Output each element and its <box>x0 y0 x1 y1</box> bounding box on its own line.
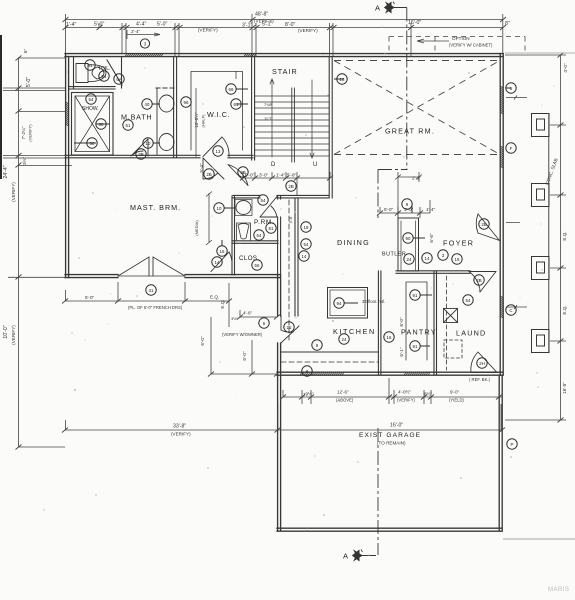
keynote 58 shower2 <box>87 138 97 148</box>
keynote 90 butler <box>403 233 413 243</box>
svg-text:40: 40 <box>145 102 150 107</box>
keynote 6 patio <box>259 318 269 328</box>
svg-text:(TO REMAIN): (TO REMAIN) <box>377 441 406 446</box>
stair east wall <box>328 57 330 198</box>
great rm option dashed box <box>389 37 525 55</box>
svg-text:(HALF): (HALF) <box>201 114 206 128</box>
keynote 41 french drs <box>146 285 156 295</box>
svg-text:16'-8": 16'-8" <box>562 382 567 394</box>
svg-text:8: 8 <box>306 369 309 374</box>
svg-text:6'-8": 6'-8" <box>429 233 434 243</box>
keynote 64 prm <box>254 230 264 240</box>
svg-text:3½": 3½" <box>21 157 27 165</box>
pantry shelves <box>406 282 427 360</box>
svg-text:BUTLER: BUTLER <box>382 252 406 258</box>
keynote 58 shower <box>96 119 106 129</box>
keynote C right wall <box>506 305 516 315</box>
garage bottom wall <box>277 527 502 529</box>
svg-text:(VERIFY): (VERIFY) <box>298 28 318 33</box>
keynote 13 wic door <box>213 146 223 156</box>
svg-text:24'-4": 24'-4" <box>3 165 9 178</box>
svg-text:MAST. BRM.: MAST. BRM. <box>130 203 181 212</box>
hall door to stair area <box>228 165 248 186</box>
svg-text:51: 51 <box>88 63 93 68</box>
patio dim row 2 <box>240 316 277 318</box>
svg-text:U: U <box>313 162 317 168</box>
vanity sink 1 <box>159 95 174 112</box>
keynote 16 pantry door <box>384 332 394 342</box>
patio dim row: french doors <box>65 300 229 302</box>
svg-text:(VERIFY W/ CABINET): (VERIFY W/ CABINET) <box>449 43 493 48</box>
keynote 3 top dim <box>140 39 149 48</box>
window top wall left <box>125 54 163 57</box>
svg-text:SHOW.: SHOW. <box>82 106 99 112</box>
svg-text:(YIELD): (YIELD) <box>449 398 464 403</box>
svg-text:48'-8": 48'-8" <box>255 12 268 18</box>
svg-text:66: 66 <box>229 87 234 92</box>
svg-text:6: 6 <box>510 86 513 91</box>
svg-text:5'-0": 5'-0" <box>157 22 167 28</box>
svg-text:5'-8": 5'-8" <box>287 173 297 178</box>
porch post 4 <box>532 330 550 353</box>
keynote 18 great rm <box>337 74 347 84</box>
svg-text:1'-4": 1'-4" <box>66 22 76 28</box>
svg-text:CONC. SLAB: CONC. SLAB <box>544 158 558 186</box>
hall / kitchen west wall <box>277 275 279 316</box>
window top wall 2 <box>244 54 256 57</box>
stair west wall <box>251 57 253 160</box>
keynote 81 prm <box>266 223 276 233</box>
svg-text:12'-6": 12'-6" <box>337 390 349 395</box>
porch post 3 <box>532 257 550 280</box>
keynote 54 laund <box>463 295 473 305</box>
svg-text:(VERIFY): (VERIFY) <box>198 28 218 33</box>
dining west wall pair <box>294 198 296 316</box>
closet door from master <box>211 252 232 272</box>
svg-text:4'-6": 4'-6" <box>243 311 253 316</box>
svg-text:PANTRY: PANTRY <box>401 328 437 337</box>
keynote 54 toilet rm <box>99 71 109 81</box>
laundry door to garage <box>471 352 497 373</box>
vanity counter edge <box>156 89 158 155</box>
window left wall master <box>66 102 69 126</box>
svg-text:90: 90 <box>406 236 411 241</box>
svg-text:6'-1": 6'-1" <box>399 347 404 357</box>
powder room south wall <box>232 240 278 242</box>
svg-text:(VERIFY): (VERIFY) <box>11 325 16 345</box>
svg-text:4'-0": 4'-0" <box>563 63 568 73</box>
svg-text:F: F <box>510 146 513 151</box>
svg-text:13: 13 <box>216 149 221 154</box>
keynote 51 toilet rm <box>85 60 95 70</box>
laundry dashed appliance <box>444 340 462 358</box>
master bedroom bottom wall <box>65 274 118 276</box>
svg-text:4'-0½": 4'-0½" <box>398 389 411 395</box>
svg-text:61: 61 <box>234 102 239 107</box>
keynote 2B hall door <box>204 169 214 179</box>
svg-text:6: 6 <box>263 321 266 326</box>
butler cabinet <box>398 218 419 271</box>
svg-text:58: 58 <box>99 122 104 127</box>
svg-text:10: 10 <box>217 206 222 211</box>
keynote 51 mbath <box>123 120 133 130</box>
shower X diagonal 1 <box>75 96 110 152</box>
left exterior wall <box>65 54 67 278</box>
svg-text:3'-1": 3'-1" <box>242 23 252 29</box>
window bottom kitchen <box>300 372 344 375</box>
svg-text:(ABOVE): (ABOVE) <box>336 398 354 403</box>
svg-text:2'-4": 2'-4" <box>131 29 141 34</box>
svg-text:4'-4": 4'-4" <box>136 22 146 28</box>
svg-text:5'-0": 5'-0" <box>26 77 32 87</box>
svg-text:16'-0": 16'-0" <box>390 423 403 429</box>
svg-text:5'-0": 5'-0" <box>94 22 104 28</box>
svg-text:24: 24 <box>407 257 412 262</box>
WIC shelf outline <box>191 72 243 151</box>
section line A-A <box>353 2 408 562</box>
powder room west wall <box>231 196 233 275</box>
svg-text:6'-0": 6'-0" <box>200 336 205 346</box>
keynote 24 kitchen <box>339 334 349 344</box>
svg-text:54: 54 <box>89 97 94 102</box>
svg-text:3'-0": 3'-0" <box>259 173 269 178</box>
svg-text:5'-0": 5'-0" <box>384 207 394 212</box>
svg-text:51: 51 <box>126 123 131 128</box>
option note arrow <box>417 39 449 43</box>
left dim ticks <box>16 56 22 450</box>
svg-text:16: 16 <box>387 335 392 340</box>
keynote 10 mbath <box>143 138 153 148</box>
master bath south wall <box>65 154 200 156</box>
keynote 2B stair door <box>238 167 248 177</box>
top segment dim line <box>65 27 503 29</box>
svg-text:56: 56 <box>255 263 260 268</box>
svg-text:2B: 2B <box>138 152 143 157</box>
svg-text:64: 64 <box>257 233 262 238</box>
window center tick marks right wall <box>506 96 527 310</box>
window right wall great rm <box>500 86 503 114</box>
master bath door leaf lower right <box>131 139 148 156</box>
svg-text:91: 91 <box>413 293 418 298</box>
svg-text:6": 6" <box>23 49 28 54</box>
section arrow bottom <box>353 550 363 562</box>
svg-text:E.Q.: E.Q. <box>210 295 219 300</box>
left horizontal extension lines <box>3 58 72 447</box>
house bottom wall <box>277 371 503 373</box>
sub dim line with arrow <box>127 30 160 39</box>
garage left wall <box>277 375 279 531</box>
hall door to kitchen <box>281 316 299 343</box>
svg-text:18: 18 <box>340 77 345 82</box>
svg-text:±9½": ±9½" <box>303 391 314 397</box>
svg-text:2B: 2B <box>481 222 486 227</box>
svg-text:9: 9 <box>316 343 319 348</box>
shower inner box <box>75 96 110 152</box>
shower outer box <box>72 93 114 156</box>
svg-text:5'-0": 5'-0" <box>85 295 95 300</box>
keynote 19 foyer <box>452 254 462 264</box>
svg-text:2'-1": 2'-1" <box>412 176 422 181</box>
dim row above hall (y178) <box>243 177 330 179</box>
svg-text:(VERIFY): (VERIFY) <box>11 182 16 202</box>
svg-text:19: 19 <box>304 225 309 230</box>
keynote 14 dining2 <box>299 251 309 261</box>
scan edge artifact left <box>0 36 2 178</box>
svg-text:DINING: DINING <box>337 238 370 247</box>
svg-text:5'-4": 5'-4" <box>199 163 204 173</box>
WIC door leaf + arc <box>203 137 229 157</box>
keynote F right wall <box>506 143 516 153</box>
svg-text:54: 54 <box>102 74 107 79</box>
powder room toilet <box>237 223 251 240</box>
long bottom dim line 33'-8 <box>65 429 502 431</box>
svg-text:(VERIFY): (VERIFY) <box>28 124 33 142</box>
porch post 2 <box>532 184 550 207</box>
bath/WIC divider wall <box>173 57 175 157</box>
svg-text:5'-1": 5'-1" <box>262 22 272 28</box>
svg-text:FOYER: FOYER <box>443 239 474 248</box>
kitchen island <box>328 288 368 319</box>
svg-text:(VERIFY): (VERIFY) <box>397 398 416 403</box>
keynote 54 prm door <box>258 195 268 205</box>
keynote 40 mbath <box>142 99 152 109</box>
svg-text:16'-0": 16'-0" <box>408 20 421 26</box>
garage dim row under house <box>283 396 502 398</box>
svg-text:( REF. BK.): ( REF. BK.) <box>469 377 491 382</box>
svg-text:1'-4": 1'-4" <box>426 207 436 212</box>
toilet room door diagonal <box>107 60 122 85</box>
keynote 2H laund garage door <box>477 358 487 368</box>
svg-text:OPTION: OPTION <box>452 36 470 41</box>
keynote 6 right wall top <box>506 83 516 93</box>
dashed wall line right of toilet room <box>156 87 176 89</box>
svg-text:7¾R: 7¾R <box>264 102 273 107</box>
toilet fixture <box>76 64 106 83</box>
keynote 56 clos <box>252 260 262 270</box>
svg-text:8": 8" <box>505 21 510 27</box>
keynote 54 dining <box>301 239 311 249</box>
svg-text:3: 3 <box>442 253 445 258</box>
hall north wall under stair <box>233 194 260 196</box>
kitchen bottom counter <box>281 351 378 353</box>
svg-text:16: 16 <box>220 249 225 254</box>
dashed line in west hall chase <box>288 200 290 340</box>
svg-text:3½": 3½" <box>231 316 239 321</box>
svg-text:10: 10 <box>146 141 151 146</box>
svg-text:11"T: 11"T <box>264 116 273 121</box>
top dim ticks <box>63 17 507 30</box>
keynote P garage wall <box>507 439 517 449</box>
french doors master <box>118 257 185 276</box>
svg-text:KITCHEN: KITCHEN <box>333 327 376 336</box>
svg-text:10'-8½": 10'-8½" <box>193 112 199 128</box>
keynote 91 pantry2 <box>410 341 420 351</box>
svg-text:LAUND: LAUND <box>456 329 486 338</box>
keynote 24 butler <box>404 254 414 264</box>
powder room sink <box>236 201 251 215</box>
svg-text:6'-0": 6'-0" <box>242 351 247 361</box>
garage right wall <box>498 375 500 531</box>
keynote 9 kitchen <box>312 340 322 350</box>
svg-text:2H: 2H <box>479 361 485 366</box>
svg-text:81: 81 <box>269 226 274 231</box>
keynote 14 butler right <box>422 253 432 263</box>
keynote 61 wic <box>231 99 241 109</box>
prm dim row (y213) <box>380 212 420 214</box>
faint bottom-right edge line <box>503 538 575 540</box>
svg-text:58: 58 <box>90 141 95 146</box>
section arrow top <box>385 2 395 14</box>
svg-text:8'-0": 8'-0" <box>285 22 295 28</box>
svg-text:54: 54 <box>466 298 471 303</box>
svg-text:2B: 2B <box>288 184 293 189</box>
svg-text:D: D <box>271 162 276 168</box>
keynote 8 kitchen counter <box>302 366 312 376</box>
right porch dim line <box>560 55 562 420</box>
keynote 2B mbath door <box>136 149 146 159</box>
keynote 54 shower <box>86 94 96 104</box>
svg-text:36"floor. mtl.: 36"floor. mtl. <box>362 299 385 304</box>
porch post 1 <box>532 114 550 137</box>
svg-text:EXIST GARAGE: EXIST GARAGE <box>359 432 421 439</box>
svg-text:A: A <box>375 4 380 13</box>
keynote 6A toilet rm <box>114 74 124 84</box>
svg-text:E.Q.: E.Q. <box>562 231 567 240</box>
svg-text:33'-8": 33'-8" <box>173 424 186 430</box>
svg-text:1'-4": 1'-4" <box>276 173 286 178</box>
svg-text:GREAT RM.: GREAT RM. <box>385 127 435 136</box>
svg-text:8½": 8½" <box>424 391 432 397</box>
svg-text:14: 14 <box>215 260 220 265</box>
laundry door from foyer <box>469 272 496 293</box>
svg-text:A: A <box>343 552 348 561</box>
svg-text:54: 54 <box>261 198 266 203</box>
foyer south wall <box>396 270 470 272</box>
right exterior wall <box>499 54 501 375</box>
powder room east wall <box>277 196 279 199</box>
stair center rails <box>291 88 293 162</box>
svg-text:2B: 2B <box>476 278 481 283</box>
keynote 2B dining <box>286 181 296 191</box>
hall vertical dim x209 <box>206 192 212 246</box>
foyer entry door <box>476 214 499 241</box>
svg-text:MARIS: MARIS <box>548 587 570 593</box>
toilet room walls <box>73 57 75 88</box>
window right wall 2 <box>500 146 503 168</box>
svg-text:CLOS.: CLOS. <box>239 255 260 262</box>
svg-text:(VERIFY): (VERIFY) <box>171 432 191 437</box>
svg-text:41: 41 <box>149 288 154 293</box>
keynote 10 prm <box>214 203 224 213</box>
window bottom wall pantry <box>404 372 430 375</box>
svg-text:6A: 6A <box>116 77 121 82</box>
top dim extension verticals <box>66 14 503 57</box>
svg-text:14: 14 <box>425 256 430 261</box>
laundry X box appliance <box>444 309 458 323</box>
keynote 96 wic <box>181 97 191 107</box>
svg-text:C: C <box>509 308 512 313</box>
svg-text:(VERIFY W/OWNER): (VERIFY W/OWNER) <box>222 332 263 337</box>
powder room door <box>260 197 277 218</box>
svg-text:E.Q.: E.Q. <box>562 305 567 314</box>
keynote 66 wic <box>226 84 236 94</box>
keynote 91 pantry <box>410 290 420 300</box>
svg-text:3: 3 <box>144 41 147 46</box>
svg-text:5'-8: 5'-8 <box>288 216 293 223</box>
svg-text:94: 94 <box>337 301 342 306</box>
butler dim <box>395 172 422 218</box>
scan speckle noise <box>43 21 554 555</box>
pantry west wall <box>377 271 379 374</box>
svg-text:E.Q.: E.Q. <box>220 299 225 308</box>
porch edge line <box>548 114 550 353</box>
keynote 94 island <box>334 298 344 308</box>
svg-text:24: 24 <box>342 337 347 342</box>
keynote 2B laund door <box>474 275 484 285</box>
svg-text:25: 25 <box>287 325 292 330</box>
wic dim leaders <box>196 71 236 157</box>
svg-text:P: P <box>511 442 514 447</box>
keynote 3 foyer <box>438 250 448 260</box>
pantry east / laundry west wall <box>433 271 435 374</box>
bath hall door leaf + arc <box>203 158 224 179</box>
stair run arrows <box>270 79 314 158</box>
stair treads <box>255 96 329 156</box>
left dim line upper <box>18 58 20 447</box>
window right wall 3 <box>500 296 503 318</box>
svg-text:7'-2¼": 7'-2¼" <box>21 126 26 139</box>
svg-text:(MEDIA): (MEDIA) <box>194 220 199 236</box>
svg-text:10'-0": 10'-0" <box>3 325 9 338</box>
keynote 9 butler top <box>402 199 412 209</box>
great room dashed box and X <box>334 61 500 155</box>
keynote 16 clos <box>217 246 227 256</box>
svg-text:W.I.C.: W.I.C. <box>207 110 230 119</box>
svg-text:19: 19 <box>455 257 460 262</box>
keynote 19 dining <box>301 222 311 232</box>
svg-text:2B: 2B <box>240 170 245 175</box>
laundry dashed chase <box>446 276 448 370</box>
svg-text:9'-0": 9'-0" <box>450 390 460 395</box>
faint top-right edge line <box>505 52 575 54</box>
keynote leader lines <box>74 79 511 346</box>
svg-text:(PL. OF 6'-0" FRENCH DRS): (PL. OF 6'-0" FRENCH DRS) <box>128 305 183 310</box>
keynote 14 clos door <box>212 257 222 267</box>
shower X diagonal 2 <box>75 96 110 152</box>
svg-text:91: 91 <box>413 344 418 349</box>
top exterior wall <box>65 53 503 55</box>
svg-text:96: 96 <box>184 100 189 105</box>
svg-text:5'-0": 5'-0" <box>245 173 255 178</box>
svg-text:STAIR: STAIR <box>272 67 298 76</box>
svg-text:2B: 2B <box>206 172 211 177</box>
svg-text:14: 14 <box>302 254 307 259</box>
keynote 2B foyer door <box>479 219 489 229</box>
svg-text:54: 54 <box>304 242 309 247</box>
keynote 25 kitchen door <box>284 322 294 332</box>
top overall dim line <box>65 19 503 21</box>
svg-text:6'-0": 6'-0" <box>399 317 404 327</box>
vanity sink 2 <box>159 134 174 151</box>
